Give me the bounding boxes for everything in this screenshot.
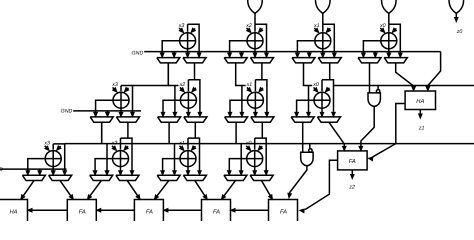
label x0 row1	[379, 23, 386, 29]
funnel right of cell x2 row1	[250, 58, 273, 63]
wire x3 row2 loop to circle	[120, 86, 122, 92]
wire GND rail row2	[73, 110, 141, 112]
wire loop of cell x3 row2	[121, 86, 134, 117]
svg-text:z1: z1	[418, 126, 425, 132]
wire funnel x0 row1 right to HA	[396, 63, 416, 91]
wire y0 to cell x0 row1	[388, 13, 390, 24]
funnel right of cell x1 row3	[183, 175, 206, 180]
wire funnel x1 row2 to cell x0 row3	[261, 122, 263, 138]
input arrow right into cell x1 row1	[326, 28, 331, 33]
port y2 (input oval)	[248, 0, 263, 13]
wire x2 row1 loop to circle	[254, 24, 256, 32]
wire funnel x0 row3 to FA U8	[221, 181, 235, 200]
wire loop of cell x2 row3	[121, 138, 134, 175]
funnel right of cell x3 row2	[116, 117, 139, 122]
FA U9 box	[269, 200, 298, 224]
svg-text:GND: GND	[0, 167, 3, 173]
label GND row2	[61, 109, 73, 115]
XOR cell x1 row1 circle	[315, 33, 331, 49]
wire z1 arrow	[418, 110, 422, 119]
wire funnel x2 row2 to input of cell x1 row3	[168, 122, 170, 143]
label FA U9	[280, 210, 287, 216]
wire y1 to cell x1 row1	[322, 13, 324, 24]
wire y2 to cell x2 row1	[254, 13, 256, 24]
label x2 row2	[179, 82, 186, 88]
wire FA U4 carry to FA U9	[300, 160, 338, 213]
wire GND rail row1	[144, 51, 440, 53]
XOR cell x1 row3 circle	[180, 151, 196, 167]
gate U2 (AND, inverted input) row3	[301, 152, 313, 166]
wire drop into funnel x0 row3	[239, 144, 243, 176]
wire x3 row1 circle bottom to trap	[186, 49, 190, 58]
wire rail arrow into funnel x2 row1	[240, 52, 244, 58]
gate U2 bubble	[309, 149, 312, 152]
FA U8 box	[202, 200, 231, 224]
svg-text:FA: FA	[79, 210, 86, 216]
wire x0 row2 loop to circle	[321, 80, 323, 92]
wire loop of cell x0 row2	[322, 80, 335, 117]
FA U7 box	[134, 200, 163, 224]
svg-text:FA: FA	[146, 210, 153, 216]
wire funnel x0 row2 to gate U2	[302, 122, 304, 152]
wire output of cell x2 row3	[93, 159, 112, 176]
XOR cell x0 row1 circle	[381, 33, 397, 49]
input arrow left into cell x2 row1	[247, 28, 252, 33]
wire drop into funnel x1 row3	[173, 144, 177, 176]
XOR cell x2 row1 circle	[247, 33, 263, 49]
wire gate U2 output	[288, 166, 307, 198]
input arrow right into cell x3 row1	[191, 28, 196, 33]
wire rail row1 end to HA	[426, 52, 441, 91]
wire z0 arrow	[454, 13, 458, 22]
wire output of cell x3 row3	[26, 159, 45, 176]
wire output of cell x3 row1	[160, 41, 179, 58]
input arrow left into cell x1 row1	[314, 28, 319, 33]
port y0 (input oval)	[382, 0, 397, 13]
svg-text:x1: x1	[246, 82, 253, 88]
funnel left of cell x1 row3	[157, 175, 180, 180]
wire output of cell x3 row2	[94, 100, 113, 117]
wire funnel x1 row1 to cell x0 row2	[329, 63, 331, 80]
label x1 row3	[178, 141, 185, 147]
label FA U7	[146, 210, 153, 216]
wire rail arrow into funnel x1 row1	[307, 52, 311, 58]
wire output of cell x1 row2	[228, 100, 247, 117]
funnel right of cell x3 row3	[49, 175, 72, 180]
wire funnel x3 row1 to cell x3 row2	[133, 63, 169, 86]
wire funnel x2 row3 to FA U6	[87, 181, 101, 200]
wire funnel x1 row2 to input of cell x0 row3	[235, 122, 237, 143]
label GND row1	[132, 50, 144, 56]
input arrow right into cell x3 row2	[124, 87, 129, 92]
funnel left of cell x2 row2	[158, 117, 181, 122]
wire x0 row1 circle bottom to trap	[387, 49, 391, 58]
funnel left of cell x0 row3	[224, 175, 247, 180]
wire output of cell x2 row2	[161, 100, 180, 117]
wire funnel x3 row3 to HA U5	[21, 181, 34, 200]
gate U1 (AND, inverted input) row2	[368, 93, 380, 107]
input arrow left into cell x2 row2	[180, 87, 185, 92]
XOR cell x2 row2 circle	[180, 92, 196, 108]
wire x3 row1 loop to circle	[187, 24, 189, 32]
label HA U5	[9, 210, 17, 216]
wire x2 row3 circle bottom to trap	[119, 167, 123, 176]
svg-text:x0: x0	[312, 82, 319, 88]
wire funnel x0 row1 to gate U1	[369, 63, 371, 93]
svg-text:z2: z2	[348, 185, 355, 191]
input arrow left into cell x1 row3	[180, 146, 185, 151]
wire x2 row3 loop to circle	[120, 138, 122, 150]
funnel left of cell x1 row1	[292, 58, 315, 63]
wire x0 row2 circle bottom to trap	[320, 108, 324, 117]
label x0 row3	[245, 141, 252, 147]
label x0 row2	[312, 82, 319, 88]
XOR cell x0 row2 circle	[314, 92, 330, 108]
wire output of cell x2 row1	[228, 41, 247, 58]
label z0	[456, 29, 463, 35]
input arrow left into cell x3 row3	[45, 146, 50, 151]
svg-text:x2: x2	[179, 82, 186, 88]
label x3 row3	[43, 141, 50, 147]
label z2	[348, 185, 355, 191]
wire x2 row2 circle bottom to trap	[187, 108, 191, 117]
wire drop to gate3 bubble	[309, 144, 311, 149]
wire carry FA U8 to FA U7	[163, 208, 201, 212]
svg-text:GND: GND	[61, 109, 73, 115]
label x1 row1	[313, 23, 320, 29]
wire loop of cell x3 row3	[53, 144, 66, 175]
funnel right of cell x0 row2	[317, 117, 340, 122]
input arrow right into cell x0 row3	[258, 146, 263, 151]
funnel right of cell x2 row2	[184, 117, 207, 122]
XOR cell x3 row1 circle	[180, 33, 196, 49]
wire long net row3 feeds	[65, 143, 474, 145]
funnel right of cell x3 row1	[183, 58, 206, 63]
wire x3 row2 circle bottom to trap	[119, 108, 123, 117]
funnel left of cell x0 row1	[358, 58, 381, 63]
input arrow left into cell x0 row3	[246, 146, 251, 151]
label x1 row2	[246, 82, 253, 88]
XOR cell x0 row3 circle	[247, 151, 263, 167]
svg-text:GND: GND	[132, 50, 144, 56]
funnel left of cell x0 row2	[291, 117, 314, 122]
label x3 row1	[178, 23, 185, 29]
svg-text:HA: HA	[9, 210, 17, 216]
label HA U3	[416, 99, 424, 105]
wire funnel x3 row3 to FA U6	[60, 181, 73, 200]
input arrow left into cell x3 row2	[113, 87, 118, 92]
svg-text:x1: x1	[313, 23, 320, 29]
XOR cell x2 row3 circle	[113, 151, 129, 167]
wire rail arrow into funnel x0 row1	[373, 52, 377, 58]
funnel right of cell x0 row3	[250, 175, 273, 180]
wire output of cell x0 row2	[295, 100, 314, 117]
wire rail arrow into funnel x3 row2	[106, 111, 110, 117]
label FA U4	[349, 159, 356, 165]
wire carry FA U9 to FA U8	[231, 208, 269, 212]
svg-text:FA: FA	[213, 210, 220, 216]
wire funnel x3 row2 to cell x2 row3	[127, 122, 129, 138]
wire x2 row1 circle bottom to trap	[253, 49, 257, 58]
wire funnel x0 row3 to FA U9	[262, 181, 273, 200]
wire funnel x3 row2 to input of cell x2 row3	[101, 122, 103, 143]
funnel left of cell x1 row2	[225, 117, 248, 122]
svg-text:FA: FA	[280, 210, 287, 216]
wire x1 row2 circle bottom to trap	[254, 108, 258, 117]
svg-text:x3: x3	[178, 23, 185, 29]
input arrow left into cell x0 row1	[380, 28, 385, 33]
wire drop into funnel x2 row2	[173, 86, 177, 117]
wire loop of cell x2 row1	[255, 24, 268, 57]
FA U6 box	[67, 200, 96, 224]
label GND row3	[0, 167, 3, 173]
wire funnel x3 row1 to cell x2 row2	[194, 63, 196, 80]
wire loop of cell x1 row3	[188, 138, 201, 175]
input arrow left into cell x0 row2	[314, 87, 319, 92]
input arrow right into cell x2 row2	[192, 87, 197, 92]
wire x1 row3 circle bottom to trap	[186, 167, 190, 176]
wire loop of cell x0 row1	[389, 24, 402, 57]
wire carry FA U6 to HA U5	[28, 208, 68, 212]
wire x1 row1 circle bottom to trap	[321, 49, 325, 58]
wire rail arrow into funnel x3 row3	[38, 169, 42, 175]
funnel right of cell x0 row1	[384, 58, 407, 63]
gate U1 bubble	[376, 90, 379, 93]
wire HA carry to FA U4	[368, 104, 405, 161]
wire funnel x1 row3 to FA U8	[195, 181, 207, 200]
HA U5 box	[0, 200, 28, 224]
funnel left of cell x2 row1	[224, 58, 247, 63]
input arrow left into cell x2 row3	[112, 146, 117, 151]
XOR cell x3 row2 circle	[113, 92, 129, 108]
wire funnel x2 row2 to cell x1 row3	[194, 122, 196, 138]
svg-text:HA: HA	[416, 99, 424, 105]
input arrow right into cell x2 row3	[124, 146, 129, 151]
wire drop into funnel x0 row2	[307, 86, 311, 117]
wire loop of cell x2 row2	[188, 80, 201, 117]
label z1	[418, 126, 425, 132]
wire x0 row1 loop to circle	[388, 24, 390, 32]
funnel left of cell x3 row1	[157, 58, 180, 63]
wire gate U1 output	[359, 106, 374, 150]
label x3 row2	[111, 82, 118, 88]
wire funnel x2 row3 to FA U7	[127, 181, 140, 200]
wire funnel x2 row1 to cell x1 row2	[261, 63, 263, 80]
input arrow right into cell x1 row2	[259, 87, 264, 92]
funnel right of cell x1 row1	[318, 58, 341, 63]
funnel right of cell x1 row2	[251, 117, 274, 122]
funnel right of cell x2 row3	[116, 175, 139, 180]
wire z2 arrow	[350, 170, 354, 179]
input arrow left into cell x3 row1	[179, 28, 184, 33]
wire output of cell x1 row1	[296, 41, 315, 58]
wire x2 row2 loop to circle	[187, 80, 189, 92]
input arrow left into cell x1 row2	[247, 87, 252, 92]
wire x1 row1 loop to circle	[322, 24, 324, 32]
port z0 (output oval)	[449, 0, 464, 13]
wire loop of cell x0 row3	[255, 138, 268, 175]
wire funnel x3 row2 to cell x3 row3	[101, 122, 103, 144]
wire output of cell x0 row1	[362, 41, 381, 58]
wire output of cell x1 row3	[161, 159, 180, 176]
XOR cell x1 row2 circle	[247, 92, 263, 108]
port y1 (input oval)	[316, 0, 331, 13]
svg-text:FA: FA	[349, 159, 356, 165]
svg-text:x3: x3	[43, 141, 50, 147]
input arrow right into cell x3 row3	[57, 146, 62, 151]
svg-text:x2: x2	[245, 23, 252, 29]
wire x3 row3 loop to circle	[52, 144, 54, 150]
wire x1 row3 loop to circle	[187, 138, 189, 150]
wire x0 row3 circle bottom to trap	[253, 167, 257, 176]
input arrow right into cell x0 row1	[392, 28, 397, 33]
wire funnel x1 row1 to input of cell x0 row2	[304, 63, 313, 86]
XOR cell x3 row3 circle	[45, 151, 61, 167]
svg-text:x3: x3	[111, 82, 118, 88]
funnel left of cell x2 row3	[90, 175, 113, 180]
wire x0 row3 loop to circle	[254, 138, 256, 150]
label FA U6	[79, 210, 86, 216]
wire carry FA U7 to FA U6	[96, 208, 134, 212]
wire x1 row2 loop to circle	[254, 80, 256, 92]
label x2 row1	[245, 23, 252, 29]
funnel left of cell x3 row2	[90, 117, 113, 122]
wire funnel x2 row1 to input of cell x1 row2	[236, 63, 246, 86]
input arrow right into cell x2 row1	[258, 28, 263, 33]
wire drop into funnel x2 row3	[105, 144, 109, 176]
wire rail arrow into funnel x3 row1	[172, 52, 176, 58]
label FA U8	[213, 210, 220, 216]
half adder HA U3	[405, 91, 435, 110]
wire GND rail row3	[0, 168, 67, 170]
wire funnel x0 row2 right to FA U4	[329, 122, 346, 151]
funnel left of cell x3 row3	[22, 175, 45, 180]
wire net B	[334, 85, 474, 87]
wire funnel x3 row1 to input of cell x2 row2	[168, 63, 178, 86]
input arrow right into cell x0 row2	[325, 87, 330, 92]
svg-text:x0: x0	[379, 23, 386, 29]
svg-text:z0: z0	[456, 29, 463, 35]
wire x3 row3 circle bottom to trap	[51, 167, 55, 176]
full adder FA U4	[338, 151, 368, 170]
wire output of cell x0 row3	[227, 159, 246, 176]
wire loop of cell x1 row2	[255, 80, 268, 117]
wire drop into funnel x1 row2	[240, 86, 244, 117]
input arrow right into cell x1 row3	[191, 146, 196, 151]
wire funnel x1 row3 to FA U7	[154, 181, 169, 200]
wire loop of cell x3 row1	[188, 24, 201, 57]
wire net B drop to gate bubble	[377, 86, 379, 90]
label x2 row3	[111, 141, 118, 147]
wire loop of cell x1 row1	[323, 24, 336, 57]
